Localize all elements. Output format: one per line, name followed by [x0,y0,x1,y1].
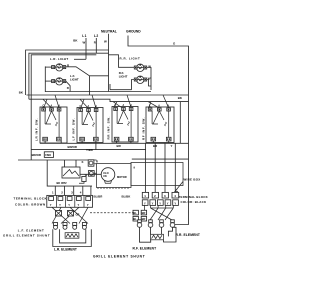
svg-text:R: R [96,159,98,163]
svg-text:MOTOR: MOTOR [117,175,127,179]
svg-text:K: K [82,160,84,164]
svg-text:COLOR: BROWN: COLOR: BROWN [15,202,46,206]
svg-text:R.F. ELEMENT: R.F. ELEMENT [133,246,157,250]
svg-text:GRILL ELEMENT SHUNT: GRILL ELEMENT SHUNT [3,233,50,237]
svg-text:TERMINAL BLOCK: TERMINAL BLOCK [179,195,209,199]
svg-text:Y/BK: Y/BK [86,148,94,152]
svg-text:BR: BR [142,217,146,221]
svg-text:TERMINAL BLOCK: TERMINAL BLOCK [14,197,48,201]
svg-text:RR INF. SW.: RR INF. SW. [107,116,111,139]
svg-text:R.R. ELEMENT: R.R. ELEMENT [176,233,200,237]
svg-text:BK INT2: BK INT2 [57,181,68,185]
svg-text:GR: GR [76,213,80,217]
svg-text:GRILL ELEMENT SHUNT: GRILL ELEMENT SHUNT [93,255,145,259]
svg-text:BL/BK: BL/BK [122,195,132,199]
svg-text:L1: L1 [82,34,86,38]
svg-text:Y: Y [68,203,70,207]
svg-text:BR/OR: BR/OR [32,153,42,157]
svg-text:Y: Y [171,144,173,148]
svg-text:BR: BR [142,211,146,215]
svg-text:W: W [104,40,107,44]
svg-text:L2: L2 [94,34,98,38]
svg-text:WIRE BOX: WIRE BOX [184,178,201,182]
svg-text:BL: BL [133,217,137,221]
svg-text:Y: Y [87,203,89,207]
svg-text:Y: Y [78,203,80,207]
svg-text:LR INF. SW.: LR INF. SW. [35,118,39,141]
svg-text:LF INF. SW.: LF INF. SW. [72,118,76,141]
svg-text:R.R. LIGHT: R.R. LIGHT [120,56,141,60]
svg-text:LIGHT: LIGHT [70,78,79,82]
svg-text:CK: CK [103,174,107,178]
svg-text:W: W [83,41,86,45]
svg-text:BL: BL [133,211,137,215]
svg-text:BL/BR: BL/BR [94,195,104,199]
svg-text:Y: Y [167,202,169,206]
svg-text:COLOR: BLACK: COLOR: BLACK [181,200,208,204]
svg-text:Y: Y [174,202,176,206]
svg-text:Y: Y [152,202,154,206]
svg-text:NEUTRAL: NEUTRAL [101,30,117,34]
svg-text:Y: Y [59,203,61,207]
svg-text:BR/OR: BR/OR [68,145,78,149]
svg-text:Y: Y [144,202,146,206]
svg-text:L.F. ELEMENT: L.F. ELEMENT [18,228,45,232]
svg-text:Y/BK: Y/BK [45,153,51,157]
svg-text:Y: Y [50,203,52,207]
svg-text:Y: Y [159,202,161,206]
svg-text:RF INF. SW.: RF INF. SW. [142,117,146,140]
svg-text:GROUND: GROUND [126,30,141,34]
svg-text:LIGHT: LIGHT [119,74,128,78]
svg-text:L.R. LIGHT: L.R. LIGHT [50,57,68,61]
svg-text:L.R. ELEMENT: L.R. ELEMENT [54,248,77,252]
